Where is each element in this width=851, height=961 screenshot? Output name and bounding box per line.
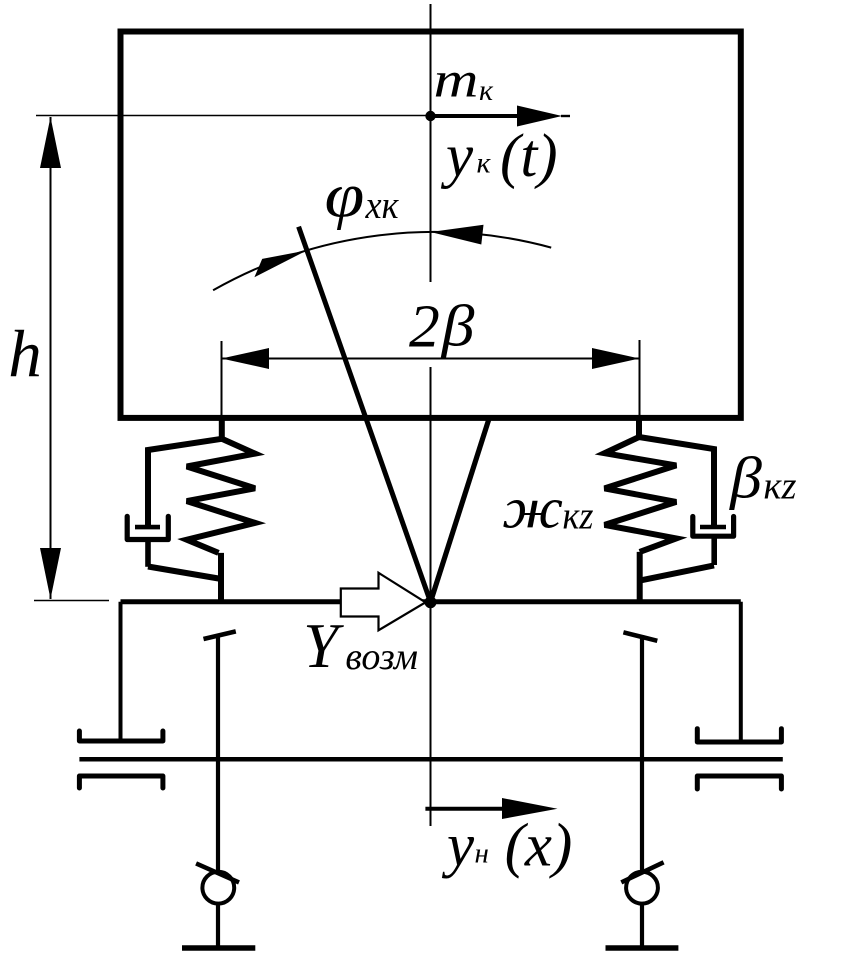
svg-text:кz: кz xyxy=(764,465,797,508)
rail line xyxy=(79,757,782,762)
left wheel circle xyxy=(202,872,234,904)
h dimension bottom arrowhead xyxy=(40,548,61,599)
svg-text:β: β xyxy=(441,294,475,359)
svg-text:2: 2 xyxy=(409,293,440,361)
convergence node dot xyxy=(425,596,437,608)
right spring top stub xyxy=(636,416,642,437)
svg-text:кz: кz xyxy=(563,495,594,538)
right damper bottom rod xyxy=(711,536,717,565)
velocity arrow shaft xyxy=(431,114,523,118)
velocity arrow head xyxy=(517,106,562,127)
left damper bottom rod xyxy=(145,540,151,567)
left upper slider bracket xyxy=(79,731,162,741)
left strut tick xyxy=(204,631,236,639)
svg-text:н: н xyxy=(475,837,489,869)
h dimension top arrowhead xyxy=(40,117,61,168)
body rectangle mass mk xyxy=(121,32,741,418)
right strut tick xyxy=(623,632,657,641)
right spring zigzag xyxy=(605,437,677,552)
right damper top bracket xyxy=(639,437,714,527)
right wheel circle xyxy=(626,872,658,904)
pendulum slanted line xyxy=(299,227,431,602)
svg-text:ж: ж xyxy=(502,477,563,541)
left spring zigzag xyxy=(187,439,255,553)
svg-text:Y: Y xyxy=(303,611,344,681)
rotation arc phi xyxy=(213,232,551,290)
left spring top stub xyxy=(219,416,225,439)
mass point dot mk xyxy=(425,111,435,121)
h dimension bottom extension line xyxy=(34,600,109,602)
velocity arrow nub xyxy=(561,115,570,117)
yn(x) arrow shaft xyxy=(425,807,505,811)
svg-text:к: к xyxy=(479,74,494,107)
left spring bottom stub xyxy=(218,553,224,601)
right upper slider bracket xyxy=(697,729,781,742)
svg-text:h: h xyxy=(8,317,42,391)
svg-text:m: m xyxy=(434,53,479,109)
svg-text:возм: возм xyxy=(345,636,418,678)
2beta right witness line xyxy=(639,340,641,418)
right V leg xyxy=(431,420,489,602)
right damper piston xyxy=(700,525,726,530)
left ground xyxy=(182,945,255,951)
2beta left witness line xyxy=(221,341,223,418)
yn(x) arrow head xyxy=(502,798,558,819)
left damper bottom bracket xyxy=(148,567,219,579)
left damper top bracket xyxy=(148,439,222,526)
right wheel slash xyxy=(621,862,663,882)
left damper piston xyxy=(135,525,160,530)
svg-text:(t): (t) xyxy=(500,123,558,190)
left wheel strut upper xyxy=(216,635,220,872)
left damper cup xyxy=(127,516,168,539)
center axis line (lower segment) xyxy=(430,367,432,826)
right ground xyxy=(606,945,679,951)
svg-text:β: β xyxy=(729,446,762,511)
svg-text:к: к xyxy=(477,147,492,180)
2beta right arrowhead xyxy=(592,348,640,369)
svg-text:φ: φ xyxy=(325,159,365,230)
2beta dimension line xyxy=(222,358,640,360)
left wheel strut lower xyxy=(216,904,220,948)
right lower slider bracket xyxy=(697,776,781,789)
bogie baseline xyxy=(121,599,741,604)
right damper bottom bracket xyxy=(641,565,714,580)
h dimension vertical line xyxy=(50,117,52,599)
left wheel slash xyxy=(196,863,239,882)
svg-text:y: y xyxy=(440,123,474,190)
left lower slider bracket xyxy=(79,776,162,788)
right wheel strut lower xyxy=(640,904,644,948)
h dimension top extension line xyxy=(36,115,428,117)
excitation open arrow Yvozm xyxy=(341,573,426,631)
right side drop xyxy=(739,602,743,742)
rotation arc left arrowhead xyxy=(254,250,307,277)
center axis line (upper segment) xyxy=(430,4,432,282)
rotation arc right arrowhead xyxy=(431,225,484,245)
2beta left arrowhead xyxy=(222,348,270,369)
left side drop xyxy=(119,602,123,741)
right damper cup xyxy=(693,517,734,537)
right spring bottom stub xyxy=(637,552,643,602)
svg-text:y: y xyxy=(441,813,475,880)
svg-text:хк: хк xyxy=(365,184,400,227)
svg-text:(x): (x) xyxy=(505,813,573,880)
right wheel strut upper xyxy=(640,635,644,872)
